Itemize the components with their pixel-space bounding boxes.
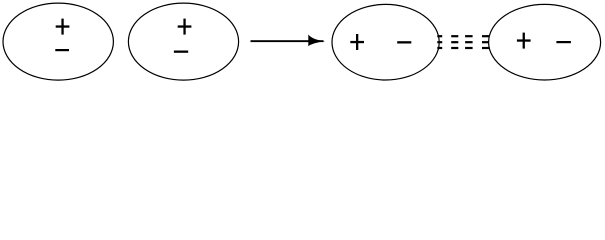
dashed line row 1 <box>437 35 442 37</box>
plus sign in ellipse 4 <box>517 33 531 49</box>
dashed line row 3 <box>437 47 442 49</box>
ellipse 3 (left product particle) <box>332 4 439 80</box>
ellipse 2 (second reactant particle) <box>128 3 238 80</box>
dashed line row 2 <box>437 41 442 43</box>
plus sign in ellipse 2 <box>178 19 192 35</box>
triple dashed attraction lines between ellipse 3 and ellipse 4 <box>437 35 489 49</box>
minus sign in ellipse 1 <box>55 49 69 51</box>
minus sign in ellipse 4 <box>556 41 571 43</box>
ellipse 4 (right product particle) <box>489 4 601 80</box>
minus sign in ellipse 2 <box>174 51 188 53</box>
plus sign in ellipse 1 <box>56 19 70 35</box>
plus sign in ellipse 3 <box>350 34 364 50</box>
arrowhead <box>308 35 325 47</box>
ellipse 1 (left reactant particle) <box>3 3 113 80</box>
minus sign in ellipse 3 <box>397 41 411 43</box>
arrow shaft <box>251 40 324 42</box>
